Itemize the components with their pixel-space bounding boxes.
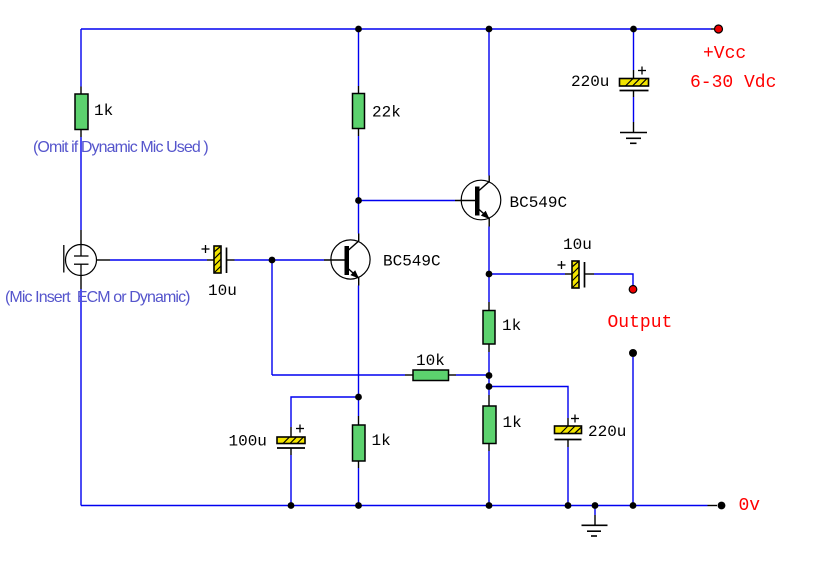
transistor Q2 base bar (475, 187, 480, 216)
svg-text:6-30 Vdc: 6-30 Vdc (690, 73, 776, 93)
wire: vertical x358 rail top to R2 (358, 29, 360, 86)
svg-text:(Omit if Dynamic Mic Used ): (Omit if Dynamic Mic Used ) (33, 139, 208, 156)
wire: 0v bottom rail (81, 505, 708, 507)
node: top rail / C2 junction (630, 26, 637, 33)
wire: C4 right lead (585, 273, 595, 275)
wire: bottom rail black stub to 0v terminal (708, 505, 718, 507)
wire: R3 top lead (488, 302, 490, 311)
svg-text:BC549C: BC549C (510, 194, 568, 212)
transistor Q1 BC549C body circle (331, 240, 370, 279)
resistor R2 22k (Q1 collector load) (353, 94, 365, 129)
wire: left vertical above R1 (80, 29, 82, 87)
microphone MIC1 internal capsule plates (74, 245, 89, 276)
wire: Q1 collector node to Q2 base (359, 200, 456, 202)
svg-text:1k: 1k (503, 414, 522, 432)
wire: R5 top lead (488, 395, 490, 406)
svg-text:Output: Output (608, 313, 673, 333)
wire: R4 top lead (358, 416, 360, 425)
wire: C5 to bottom rail (567, 447, 569, 506)
capacitor C1 10u input coupling: plus sign (202, 245, 210, 253)
wire: +V top rail (81, 28, 711, 30)
capacitor C4 10u output coupling: plus sign (558, 261, 566, 269)
wire: Q2 emitter node to C4 (489, 273, 565, 275)
svg-text:0v: 0v (739, 496, 761, 516)
wire: C1 left lead (207, 259, 214, 261)
svg-text:10u: 10u (563, 236, 592, 254)
wire: top rail to C2 (633, 29, 635, 70)
svg-text:1k: 1k (372, 432, 391, 450)
resistor R1 1k (mic bias) (75, 94, 88, 130)
wire: C2 to ground G1 (633, 97, 635, 122)
capacitor C5 hatched positive plate (555, 426, 582, 434)
wire: top rail black stub to +Vcc terminal (711, 28, 715, 30)
svg-text:100u: 100u (229, 433, 267, 451)
node: +Vcc terminal red dot (715, 25, 723, 33)
wire: R6 to feedback node (456, 374, 489, 376)
transistor Q2 collector stroke (479, 176, 490, 192)
node: bottom rail / output return junction (630, 502, 637, 509)
transistor Q1 base bar (345, 246, 350, 275)
wire: R5 to bottom rail (488, 451, 490, 506)
capacitor C2 negative plate (620, 90, 649, 92)
wire: R4 bottom lead (358, 461, 360, 468)
resistor R5 1k (Q2 emitter lower) (483, 406, 496, 444)
wire: mic output lead black (97, 259, 111, 261)
wire: C1 right lead (227, 259, 235, 261)
wire: C4 to output terminal (594, 274, 633, 285)
transistor Q2 BC549C body circle (461, 180, 501, 220)
wire: mic bottom lead black (80, 276, 82, 290)
wire: R1 bottom lead (80, 130, 82, 138)
node: bottom rail / R4 junction (355, 502, 362, 509)
wire: C2 top lead (633, 70, 635, 79)
node: R5 top / C5 junction (486, 383, 493, 390)
wire: C2 bottom lead (633, 91, 635, 98)
resistor R6 10k (feedback, horizontal) (413, 370, 449, 381)
node: Q1 collector / Q2 base junction (355, 197, 362, 204)
wire: R5 bottom lead (488, 444, 490, 452)
resistor R4 1k (Q1 emitter) (353, 425, 366, 461)
transistor Q1 emitter stroke (348, 269, 359, 286)
capacitor C4 hatched positive plate (572, 261, 579, 288)
node: bottom rail / R5 junction (486, 502, 493, 509)
wire: C5 top lead (567, 418, 569, 426)
wire: R4 to bottom rail (358, 468, 360, 506)
svg-text:10k: 10k (416, 352, 445, 370)
wire: R3 bottom lead (488, 344, 490, 352)
transistor Q1 collector stroke (348, 234, 359, 251)
capacitor C2 220u supply bypass: plus sign (638, 67, 646, 75)
wire: R2 to Q1 collector node (358, 136, 360, 234)
wire: feedback horizontal to R6 (272, 374, 405, 376)
wire: C3 top lead (290, 427, 292, 437)
node: bottom rail / C3 junction (288, 502, 295, 509)
node: feedback / R6 junction (486, 372, 493, 379)
wire: ground G2 riser (594, 506, 596, 516)
node: output return terminal dot (629, 349, 637, 357)
svg-text:220u: 220u (588, 423, 626, 441)
wire: left vertical mic to bottom rail (80, 289, 82, 506)
node: Output terminal red dot (629, 286, 637, 294)
svg-text:10u: 10u (208, 282, 237, 300)
microphone MIC1 side bracket (63, 245, 65, 273)
wire: feedback drop from Q1 base node (271, 260, 273, 375)
transistor Q2 emitter arrow (481, 211, 490, 219)
capacitor C4 negative plate (584, 262, 586, 288)
node: bottom rail / C5 junction (565, 502, 572, 509)
capacitor C1 negative plate (226, 248, 228, 274)
wire: G2 lead black (594, 515, 596, 525)
svg-text:220u: 220u (571, 73, 609, 91)
capacitor C3 negative plate (277, 447, 305, 449)
ground G2 (main 0v) (582, 525, 608, 536)
wire: C3 horizontal to Q1 emitter node (291, 397, 359, 427)
wire: left vertical R1 to mic (80, 137, 82, 230)
node: Q1 base / feedback junction (269, 257, 276, 264)
wire: C4 left lead (565, 273, 572, 275)
svg-text:1k: 1k (502, 317, 521, 335)
wire: feedback node to C5 branch (489, 387, 568, 419)
svg-text:1k: 1k (94, 102, 113, 120)
microphone MIC1 body circle (66, 245, 97, 276)
svg-text:+Vcc: +Vcc (703, 44, 746, 64)
wire: mic top lead black (80, 230, 82, 245)
wire: C1 to Q1 base node (235, 259, 325, 261)
node: 0v terminal dot (718, 502, 726, 510)
wire: Q2 emitter vertical to output node (488, 227, 490, 275)
wire: R6 right lead (449, 374, 457, 376)
svg-text:22k: 22k (372, 104, 401, 122)
wire: output node to R3 (488, 274, 490, 302)
wire: C3 to bottom rail (290, 455, 292, 506)
resistor R3 1k (Q2 emitter upper) (483, 311, 495, 345)
capacitor C3 hatched positive plate (277, 437, 305, 444)
wire: output ground terminal drop (632, 357, 634, 506)
ground G1 (supply bypass) (620, 133, 647, 144)
wire: C3 bottom lead (290, 448, 292, 455)
node: top rail / R2 junction (355, 26, 362, 33)
wire: Q1 base lead black (324, 259, 345, 261)
capacitor C5 negative plate (555, 439, 582, 441)
wire: G1 lead black (633, 122, 635, 133)
capacitor C3 100u emitter bypass: plus sign (296, 425, 304, 433)
svg-text:(Mic Insert ECM or Dynamic): (Mic Insert ECM or Dynamic) (5, 289, 190, 306)
wire: R3 to feedback node (488, 352, 490, 395)
wire: R1 top lead (80, 87, 82, 95)
capacitor C1 10u hatched positive plate (214, 246, 221, 273)
wire: R2 top lead (358, 86, 360, 94)
node: top rail / Q2 collector junction (486, 26, 493, 33)
node: Q2 emitter / output junction (486, 271, 493, 278)
wire: R2 bottom lead (358, 129, 360, 137)
transistor Q2 emitter stroke (479, 209, 490, 227)
capacitor C2 hatched positive plate (620, 79, 649, 87)
wire: Q1 emitter vertical down (358, 286, 360, 398)
wire: mic to C1 (110, 259, 207, 261)
wire: Q2 base lead black (455, 200, 475, 202)
capacitor C5 220u output node bypass: plus sign (571, 415, 579, 423)
node: Q1 emitter / C3 junction (355, 394, 362, 401)
wire: C5 bottom lead (567, 440, 569, 448)
transistor Q1 emitter arrow (350, 270, 359, 278)
node: bottom rail / G2 junction (592, 502, 599, 509)
wire: R6 left lead (405, 374, 413, 376)
wire: vertical x489 rail top to Q2 collector (488, 29, 490, 176)
svg-text:BC549C: BC549C (383, 253, 441, 271)
wire: Q1 emitter node to R4 (358, 397, 360, 416)
